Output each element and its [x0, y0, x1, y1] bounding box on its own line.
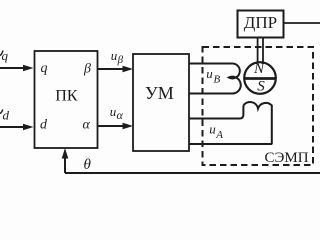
- svg-text:β: β: [117, 54, 124, 66]
- label u_alpha: [110, 104, 124, 122]
- node d input label: [0, 108, 10, 123]
- block DPR: [238, 11, 284, 38]
- block PK: [35, 51, 98, 148]
- svg-text:A: A: [215, 129, 223, 141]
- wire UM to winding A left: [189, 106, 243, 119]
- wire winding A bottom to UM: [189, 143, 272, 145]
- rotor divider: [244, 77, 276, 80]
- wire input d arrow: [0, 124, 34, 131]
- svg-text:α: α: [117, 108, 124, 122]
- svg-text:N: N: [253, 61, 265, 77]
- wire UM to winding B top: [189, 63, 233, 65]
- node q input label: [0, 48, 9, 63]
- rotor circle N/S: [244, 62, 276, 94]
- wire input q arrow: [0, 65, 34, 72]
- svg-text:β: β: [83, 61, 91, 76]
- winding B coil: [229, 63, 241, 93]
- svg-text:УМ: УМ: [145, 83, 174, 103]
- wire theta feedback: [62, 148, 320, 173]
- label u_A: [209, 122, 223, 142]
- label u_B: [206, 66, 220, 86]
- svg-text:α: α: [83, 118, 91, 133]
- dashed box SEMP: [203, 47, 314, 165]
- wire u_alpha PK to UM: [98, 123, 134, 130]
- wire DPR output theta: [284, 22, 320, 24]
- svg-text:СЭМП: СЭМП: [265, 150, 309, 166]
- svg-text:u: u: [209, 122, 216, 137]
- svg-text:θ: θ: [84, 157, 92, 173]
- svg-text:q: q: [2, 48, 9, 63]
- block UM: [133, 54, 189, 151]
- wire UM to winding B bottom: [189, 93, 233, 95]
- svg-text:ПК: ПК: [55, 88, 78, 105]
- svg-text:q: q: [41, 61, 48, 76]
- svg-text:S: S: [257, 79, 265, 95]
- svg-text:ДПР: ДПР: [244, 13, 277, 32]
- svg-text:d: d: [3, 108, 10, 123]
- svg-text:B: B: [214, 74, 221, 86]
- winding A coil: [243, 102, 271, 144]
- svg-text:d: d: [40, 118, 48, 133]
- label u_beta: [111, 48, 124, 66]
- wire u_beta PK to UM: [98, 66, 134, 73]
- svg-text:u: u: [206, 66, 213, 81]
- shaft double line rotor to DPR: [258, 38, 263, 63]
